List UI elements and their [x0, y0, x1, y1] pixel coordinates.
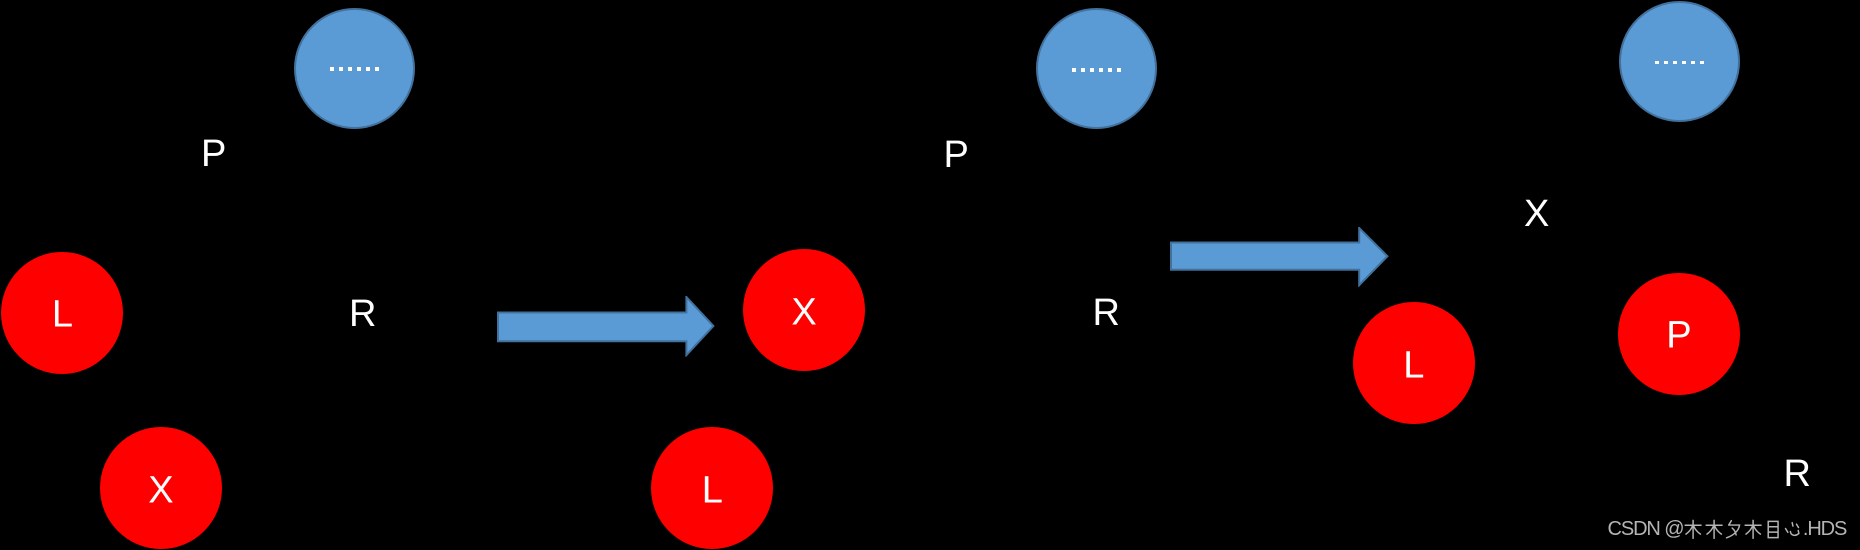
arrow 1: [497, 296, 715, 357]
node L circle 3 (red): [1353, 302, 1475, 424]
node ancestors circle 3 (blue, "……"): [1619, 1, 1740, 122]
node ancestors circle 2 (blue, "……"): [1036, 8, 1157, 129]
node X circle 2 (red, after rotate): [743, 249, 865, 371]
node L circle 2 (red, after rotate): [651, 427, 773, 549]
node X label 3: [1524, 195, 1549, 233]
node X circle 1 (red): [100, 427, 222, 549]
node P label 1: [201, 135, 226, 173]
node L circle 1 (red): [1, 252, 123, 374]
node R label 2: [1093, 294, 1120, 332]
node ancestors circle 1 (blue, "……"): [294, 8, 415, 129]
node R label 1: [349, 295, 376, 333]
arrow 2: [1170, 227, 1389, 287]
node P label 2: [944, 136, 969, 174]
node R label 3: [1784, 455, 1811, 493]
node P circle 3 (red): [1618, 273, 1740, 395]
watermark CSDN @木木夕木目心.HDS: [1608, 518, 1847, 540]
